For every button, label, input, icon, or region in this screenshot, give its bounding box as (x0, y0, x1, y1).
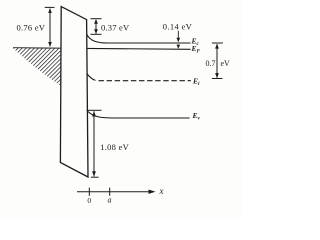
conduction band edge Ec (87, 34, 191, 43)
x axis (77, 191, 151, 193)
Fermi level line EF (metal and semiconductor) (13, 48, 191, 50)
valence band edge Ev (88, 112, 190, 119)
svg-text:0.7: 0.7 (206, 59, 216, 68)
0.76 eV arrow (45, 7, 55, 46)
svg-text:0.14 eV: 0.14 eV (163, 22, 193, 32)
svg-text:0.76 eV: 0.76 eV (17, 23, 46, 33)
svg-text:1.08 eV: 1.08 eV (100, 142, 129, 152)
0.71 eV arrow (212, 43, 223, 79)
oxide barrier outline (60, 7, 88, 177)
tick a (109, 188, 111, 196)
0.37 eV arrow (91, 19, 102, 35)
svg-text:x: x (159, 186, 164, 196)
svg-text:a: a (108, 196, 112, 205)
svg-text:eV: eV (221, 59, 231, 68)
intrinsic level Ei (dashed) (87, 74, 96, 81)
metal filled-states hatched wedge (13, 48, 61, 86)
origin tick (88, 188, 90, 196)
1.08 eV arrow (87, 110, 102, 177)
svg-text:0.37 eV: 0.37 eV (101, 23, 130, 33)
0.14 eV leader arrow to Ec and EF (177, 31, 179, 46)
svg-text:0: 0 (87, 196, 91, 205)
